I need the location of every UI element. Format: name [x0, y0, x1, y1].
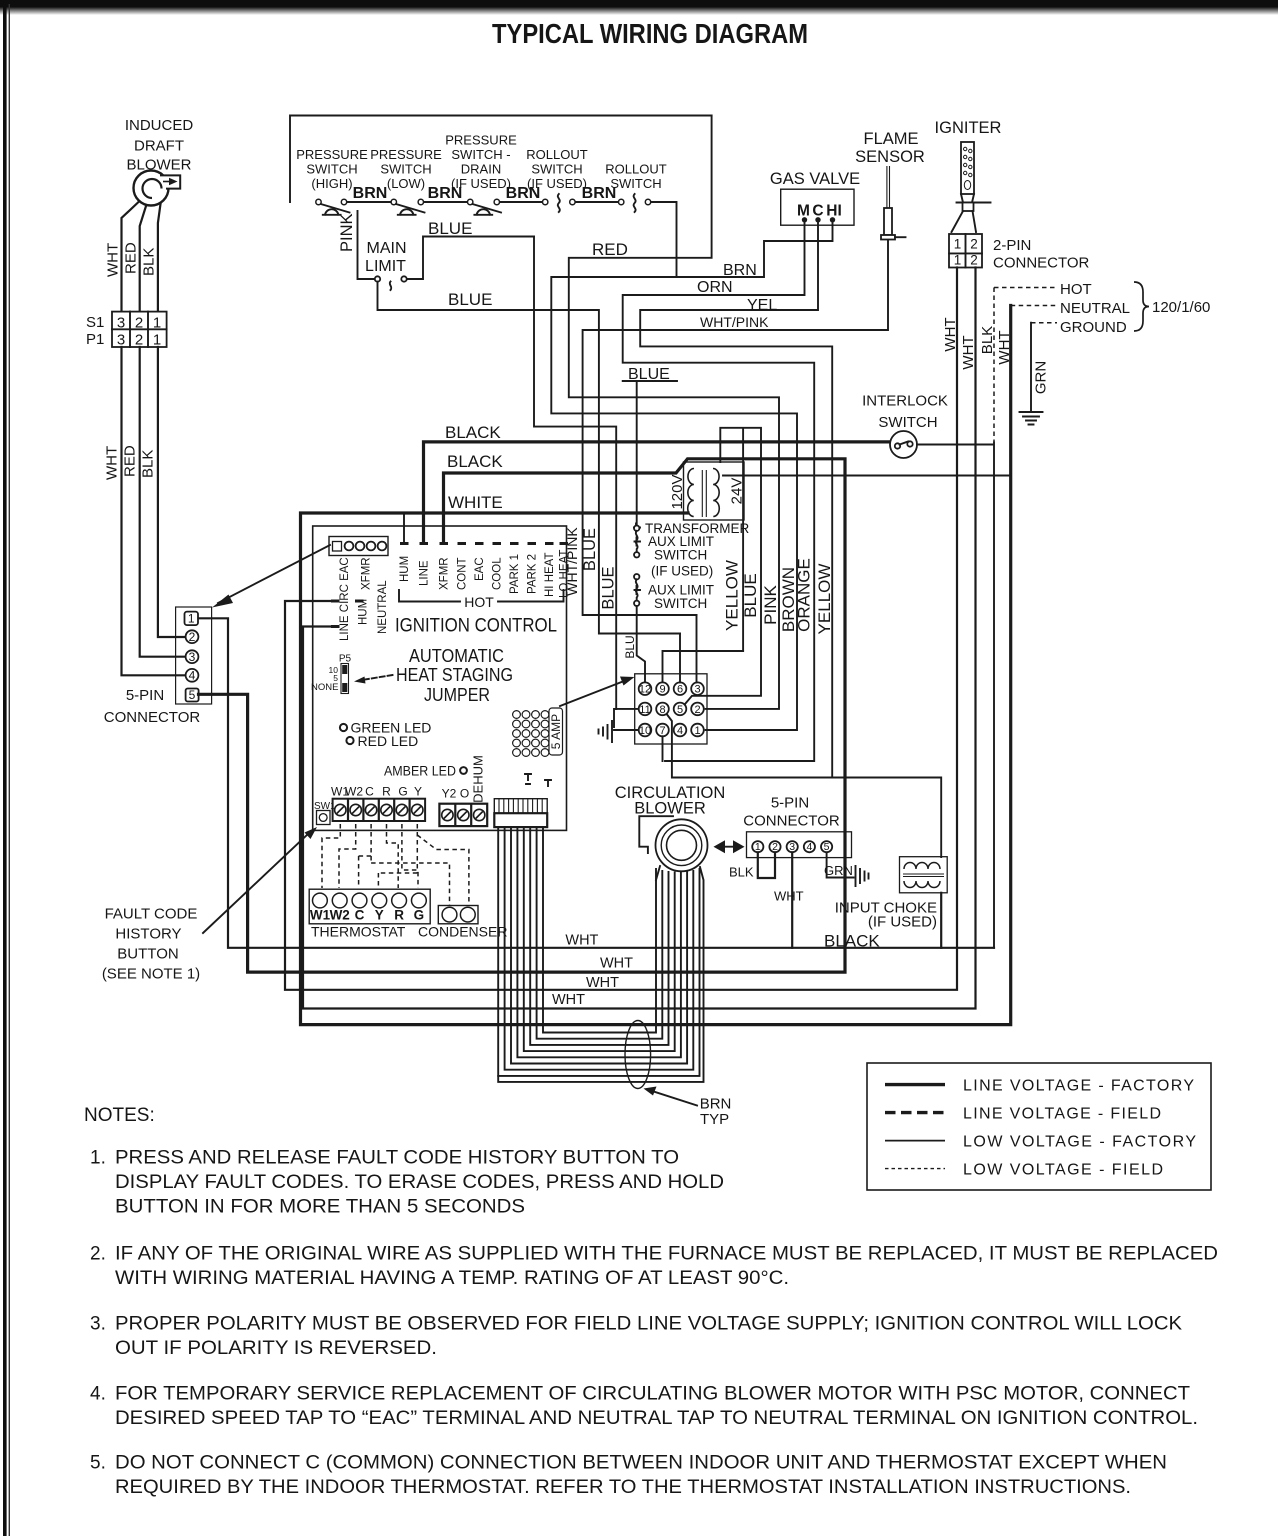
svg-text:PRESSURE: PRESSURE — [445, 133, 517, 148]
svg-text:3: 3 — [189, 650, 196, 664]
svg-text:C: C — [355, 908, 365, 923]
svg-text:INDUCED: INDUCED — [125, 117, 194, 134]
svg-text:7: 7 — [659, 725, 665, 737]
svg-text:SWITCH: SWITCH — [531, 162, 582, 177]
svg-text:BRN: BRN — [723, 262, 757, 279]
svg-text:2.: 2. — [90, 1244, 106, 1265]
svg-text:EAC: EAC — [474, 557, 486, 581]
svg-text:SWITCH: SWITCH — [654, 548, 707, 563]
svg-text:MAIN: MAIN — [367, 240, 407, 257]
svg-text:GRN: GRN — [824, 863, 853, 878]
svg-text:GROUND: GROUND — [1060, 319, 1127, 336]
svg-text:GAS VALVE: GAS VALVE — [770, 170, 860, 188]
svg-text:9: 9 — [659, 684, 665, 696]
svg-text:NOTES:: NOTES: — [84, 1105, 155, 1126]
svg-text:AUTOMATIC: AUTOMATIC — [409, 645, 504, 666]
svg-text:BLK: BLK — [140, 450, 157, 478]
svg-text:8: 8 — [659, 704, 665, 716]
svg-text:IGNITION CONTROL: IGNITION CONTROL — [395, 616, 557, 637]
svg-text:BRN: BRN — [353, 185, 388, 202]
svg-text:P5: P5 — [339, 654, 352, 665]
svg-text:3: 3 — [694, 684, 700, 696]
svg-text:BLUE: BLUE — [581, 528, 599, 571]
svg-text:R: R — [394, 908, 404, 923]
svg-text:HUM: HUM — [358, 599, 370, 625]
svg-text:BLK: BLK — [141, 248, 158, 276]
svg-text:DRAIN: DRAIN — [461, 162, 501, 177]
svg-text:YELLOW: YELLOW — [815, 564, 834, 635]
svg-text:PRESSURE: PRESSURE — [296, 147, 368, 162]
svg-text:3: 3 — [117, 315, 125, 332]
svg-text:(IF USED): (IF USED) — [868, 914, 937, 931]
svg-text:LIMIT: LIMIT — [365, 258, 406, 275]
svg-text:BLACK: BLACK — [445, 423, 501, 442]
svg-text:DEHUM: DEHUM — [471, 755, 486, 803]
svg-text:(HIGH): (HIGH) — [311, 176, 352, 191]
svg-text:BLU: BLU — [623, 635, 637, 658]
svg-text:1: 1 — [188, 612, 195, 626]
svg-text:DISPLAY FAULT CODES. TO ERASE: DISPLAY FAULT CODES. TO ERASE CODES, PRE… — [115, 1172, 724, 1193]
svg-text:AMBER LED: AMBER LED — [384, 763, 456, 779]
svg-text:IGNITER: IGNITER — [935, 119, 1002, 137]
svg-text:5-PIN: 5-PIN — [771, 795, 809, 812]
svg-text:SWITCH: SWITCH — [610, 176, 661, 191]
svg-text:LINE CIRC EAC: LINE CIRC EAC — [339, 557, 351, 641]
svg-text:12: 12 — [639, 684, 651, 696]
svg-text:SWITCH -: SWITCH - — [451, 147, 510, 162]
svg-text:(IF USED): (IF USED) — [651, 564, 713, 579]
svg-text:Y2: Y2 — [442, 787, 457, 801]
svg-text:BLOWER: BLOWER — [634, 800, 706, 818]
svg-text:FOR TEMPORARY SERVICE REPLACEM: FOR TEMPORARY SERVICE REPLACEMENT OF CIR… — [115, 1384, 1190, 1405]
svg-text:OUT IF POLARITY IS REVERSED.: OUT IF POLARITY IS REVERSED. — [115, 1338, 437, 1359]
svg-text:120/1/60: 120/1/60 — [1152, 299, 1210, 316]
svg-text:WHT: WHT — [565, 933, 598, 949]
svg-text:1: 1 — [153, 315, 161, 332]
svg-text:R: R — [382, 785, 391, 799]
svg-text:CONNECTOR: CONNECTOR — [993, 255, 1090, 272]
svg-text:BLUE: BLUE — [628, 366, 670, 383]
svg-text:2: 2 — [694, 704, 700, 716]
svg-text:HI HEAT: HI HEAT — [544, 552, 556, 597]
svg-text:SWITCH: SWITCH — [654, 596, 707, 611]
svg-text:2: 2 — [970, 237, 978, 252]
svg-text:1: 1 — [954, 253, 962, 268]
svg-text:4.: 4. — [90, 1384, 106, 1405]
svg-text:BLACK: BLACK — [824, 932, 880, 951]
svg-text:BRN: BRN — [700, 1096, 732, 1113]
svg-text:HOT: HOT — [1060, 281, 1092, 298]
svg-text:LOW VOLTAGE - FACTORY: LOW VOLTAGE - FACTORY — [963, 1134, 1196, 1151]
svg-text:BUTTON: BUTTON — [117, 946, 178, 963]
svg-text:S1: S1 — [86, 314, 104, 331]
svg-text:HOT: HOT — [464, 594, 494, 610]
svg-text:Y: Y — [375, 908, 384, 923]
svg-text:HEAT STAGING: HEAT STAGING — [396, 664, 513, 685]
svg-text:FAULT CODE: FAULT CODE — [105, 906, 198, 923]
svg-text:TYPICAL WIRING DIAGRAM: TYPICAL WIRING DIAGRAM — [492, 18, 808, 49]
svg-text:C: C — [365, 785, 374, 799]
svg-text:REQUIRED BY THE INDOOR THERMOS: REQUIRED BY THE INDOOR THERMOSTAT. REFER… — [115, 1477, 1131, 1498]
svg-text:O: O — [460, 787, 469, 801]
svg-text:BLOWER: BLOWER — [126, 157, 191, 174]
svg-text:10: 10 — [639, 725, 651, 737]
svg-text:DESIRED SPEED TAP TO “EAC” TER: DESIRED SPEED TAP TO “EAC” TERMINAL AND … — [115, 1408, 1198, 1429]
svg-text:1.: 1. — [90, 1148, 106, 1169]
svg-text:LINE VOLTAGE - FIELD: LINE VOLTAGE - FIELD — [963, 1106, 1161, 1123]
svg-text:GRN: GRN — [1033, 361, 1050, 394]
svg-text:4: 4 — [189, 669, 196, 683]
svg-text:SWITCH: SWITCH — [878, 414, 937, 431]
svg-text:C: C — [812, 203, 823, 220]
svg-text:2-PIN: 2-PIN — [993, 237, 1031, 254]
svg-text:BLUE: BLUE — [428, 219, 472, 238]
svg-text:RED LED: RED LED — [358, 733, 419, 749]
svg-text:CONNECTOR: CONNECTOR — [743, 813, 840, 830]
svg-text:1: 1 — [694, 725, 700, 737]
svg-text:ROLLOUT: ROLLOUT — [605, 162, 666, 177]
svg-text:120V: 120V — [669, 474, 686, 509]
svg-text:LOW VOLTAGE - FIELD: LOW VOLTAGE - FIELD — [963, 1162, 1163, 1179]
svg-text:NEUTRAL: NEUTRAL — [377, 580, 389, 634]
svg-text:11: 11 — [639, 704, 650, 716]
svg-text:HISTORY: HISTORY — [115, 926, 181, 943]
svg-text:YEL: YEL — [747, 297, 777, 314]
svg-text:2: 2 — [970, 253, 978, 268]
svg-text:W2: W2 — [330, 908, 350, 923]
svg-text:IF ANY OF THE ORIGINAL WIRE AS: IF ANY OF THE ORIGINAL WIRE AS SUPPLIED … — [115, 1244, 1218, 1265]
svg-text:BRN: BRN — [506, 185, 541, 202]
svg-text:LO HEAT: LO HEAT — [559, 550, 571, 598]
svg-text:W2: W2 — [345, 785, 363, 799]
svg-text:PINK: PINK — [338, 213, 356, 252]
svg-text:2: 2 — [135, 315, 143, 332]
svg-text:SWITCH: SWITCH — [306, 162, 357, 177]
svg-text:CONDENSER: CONDENSER — [418, 924, 507, 940]
svg-text:XFMR: XFMR — [439, 557, 451, 590]
svg-text:5 AMP: 5 AMP — [549, 714, 563, 749]
svg-text:G: G — [414, 908, 425, 923]
svg-text:4: 4 — [806, 841, 812, 853]
svg-text:Y: Y — [414, 785, 422, 799]
svg-text:YELLOW: YELLOW — [723, 560, 742, 631]
svg-text:THERMOSTAT: THERMOSTAT — [311, 924, 406, 940]
svg-text:3.: 3. — [90, 1314, 106, 1335]
svg-text:WHT: WHT — [774, 889, 804, 904]
svg-text:LINE VOLTAGE - FACTORY: LINE VOLTAGE - FACTORY — [963, 1078, 1194, 1095]
svg-text:CONNECTOR: CONNECTOR — [104, 709, 201, 726]
svg-text:FLAME: FLAME — [863, 130, 918, 148]
svg-text:NEUTRAL: NEUTRAL — [1060, 300, 1130, 317]
svg-text:BLK: BLK — [979, 326, 996, 354]
svg-text:BLACK: BLACK — [447, 452, 503, 471]
svg-text:BRN: BRN — [582, 185, 617, 202]
svg-text:SENSOR: SENSOR — [855, 148, 925, 166]
svg-text:CONT: CONT — [457, 557, 469, 590]
svg-text:5.: 5. — [90, 1453, 106, 1474]
svg-text:WHT/PINK: WHT/PINK — [700, 314, 769, 330]
svg-text:DO NOT CONNECT C (COMMON) CONN: DO NOT CONNECT C (COMMON) CONNECTION BET… — [115, 1453, 1167, 1474]
svg-text:BLUE: BLUE — [448, 290, 492, 309]
svg-text:BLK: BLK — [729, 865, 754, 880]
svg-text:PRESSURE: PRESSURE — [370, 147, 442, 162]
svg-text:SWITCH: SWITCH — [380, 162, 431, 177]
svg-text:5: 5 — [189, 688, 196, 702]
svg-text:DRAFT: DRAFT — [134, 138, 184, 155]
svg-text:BRN: BRN — [428, 185, 463, 202]
svg-text:6: 6 — [677, 684, 683, 696]
svg-text:G: G — [398, 785, 407, 799]
svg-text:INTERLOCK: INTERLOCK — [862, 393, 948, 410]
svg-text:ORN: ORN — [697, 279, 733, 296]
svg-text:TYP: TYP — [700, 1111, 729, 1128]
svg-text:NONE: NONE — [311, 682, 338, 693]
svg-text:HI: HI — [826, 203, 842, 220]
svg-text:PROPER POLARITY MUST BE OBSERV: PROPER POLARITY MUST BE OBSERVED FOR FIE… — [115, 1314, 1182, 1335]
svg-text:PINK: PINK — [761, 585, 780, 625]
svg-text:(LOW): (LOW) — [387, 176, 425, 191]
svg-text:WHT: WHT — [104, 446, 121, 480]
svg-text:2: 2 — [189, 630, 196, 644]
svg-text:JUMPER: JUMPER — [424, 684, 490, 705]
svg-text:WHT: WHT — [600, 956, 633, 972]
svg-text:P1: P1 — [86, 331, 104, 348]
svg-text:WHT: WHT — [552, 992, 585, 1008]
svg-text:COOL: COOL — [492, 557, 504, 590]
svg-text:(SEE NOTE 1): (SEE NOTE 1) — [102, 966, 200, 983]
svg-text:RED: RED — [122, 445, 139, 477]
svg-text:WITH WIRING MATERIAL HAVING A: WITH WIRING MATERIAL HAVING A TEMP. RATI… — [115, 1268, 789, 1289]
svg-text:5-PIN: 5-PIN — [126, 687, 164, 704]
svg-text:WHITE: WHITE — [448, 493, 503, 512]
svg-text:PARK 1: PARK 1 — [509, 554, 521, 594]
svg-text:5: 5 — [677, 704, 683, 716]
svg-text:PARK 2: PARK 2 — [527, 554, 539, 594]
svg-text:W1: W1 — [310, 908, 331, 923]
svg-text:HUM: HUM — [399, 556, 411, 582]
svg-text:BUTTON IN FOR MORE THAN 5 SECO: BUTTON IN FOR MORE THAN 5 SECONDS — [115, 1197, 525, 1218]
svg-text:WHT: WHT — [586, 975, 619, 991]
svg-text:1: 1 — [954, 237, 962, 252]
svg-text:RED: RED — [123, 242, 140, 274]
svg-text:BLUE: BLUE — [600, 566, 618, 609]
svg-text:PRESS AND RELEASE FAULT CODE H: PRESS AND RELEASE FAULT CODE HISTORY BUT… — [115, 1148, 679, 1169]
svg-text:ORANGE: ORANGE — [795, 558, 814, 632]
svg-text:XFMR: XFMR — [361, 557, 373, 590]
svg-text:M: M — [797, 203, 810, 220]
svg-text:RED: RED — [592, 240, 628, 259]
svg-text:4: 4 — [677, 725, 683, 737]
svg-text:ROLLOUT: ROLLOUT — [526, 147, 587, 162]
svg-text:LINE: LINE — [419, 560, 431, 586]
svg-text:WHT: WHT — [105, 243, 122, 277]
